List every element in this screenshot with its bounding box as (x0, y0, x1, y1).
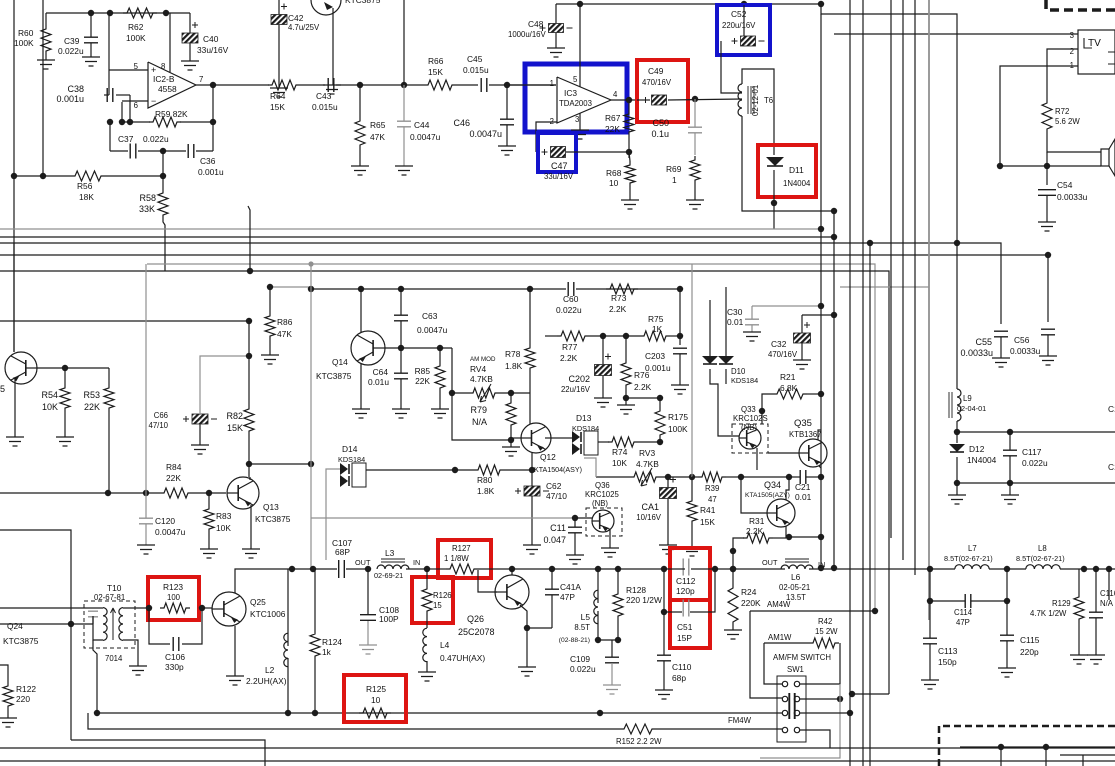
wire (116, 94, 130, 96)
red box R127 (438, 540, 491, 578)
resistor R128 (613, 590, 623, 620)
svg-text:R129: R129 (1052, 599, 1071, 608)
wire (145, 264, 147, 493)
svg-text:8: 8 (161, 62, 165, 71)
ground (37, 60, 55, 69)
svg-text:10K: 10K (216, 523, 231, 533)
resistor R84 (160, 488, 192, 498)
wire (336, 84, 424, 86)
resistor R56 (71, 171, 105, 181)
svg-text:L9: L9 (963, 394, 972, 403)
svg-text:02-69-21: 02-69-21 (374, 571, 403, 580)
svg-text:R79: R79 (470, 405, 487, 415)
svg-text:10: 10 (609, 178, 619, 188)
capacitor C43 (328, 78, 334, 92)
svg-text:7: 7 (199, 75, 203, 84)
wire (385, 347, 452, 349)
resistor R86 (265, 312, 275, 340)
svg-text:KDS184: KDS184 (731, 376, 758, 385)
red box R125 (344, 675, 406, 722)
svg-text:R80: R80 (477, 475, 493, 485)
red box R123 (148, 577, 199, 620)
wire (733, 538, 744, 569)
svg-text:−: − (151, 96, 156, 106)
svg-text:4.7u/25V: 4.7u/25V (288, 23, 320, 32)
ground (82, 57, 100, 66)
svg-text:0.0047u: 0.0047u (410, 132, 441, 142)
svg-text:100K: 100K (668, 424, 688, 434)
ground (502, 447, 520, 456)
wire (430, 568, 446, 570)
svg-text:C1: C1 (1108, 404, 1115, 414)
svg-text:R41: R41 (700, 505, 716, 515)
ground (617, 405, 635, 414)
svg-text:02-12-01: 02-12-01 (751, 85, 760, 116)
ground (547, 48, 565, 57)
ground (518, 667, 536, 676)
capacitor C107 (339, 560, 345, 578)
resistor R31 (743, 533, 773, 543)
svg-text:330p: 330p (165, 662, 184, 672)
svg-text:0.015u: 0.015u (463, 65, 489, 75)
ground (793, 360, 811, 369)
svg-text:0.0047u: 0.0047u (417, 325, 448, 335)
blue box C47 (538, 133, 576, 172)
resistor R60 (41, 25, 51, 55)
svg-text:+: + (151, 65, 156, 75)
svg-text:T6: T6 (764, 96, 773, 105)
svg-text:0.022u: 0.022u (1022, 458, 1048, 468)
ground (659, 545, 677, 554)
svg-text:0.001u: 0.001u (56, 94, 84, 104)
wire (360, 289, 362, 332)
wire (pin1) (507, 84, 556, 86)
diode D12 (949, 444, 965, 452)
resistor R68 (625, 161, 635, 187)
ground (1070, 655, 1088, 664)
resistor R62 (123, 8, 157, 18)
wire (249, 477, 251, 480)
capacitor C39 (84, 37, 98, 43)
capacitor C11 (568, 527, 582, 533)
wire (576, 288, 680, 290)
capacitor C120 (139, 518, 153, 524)
svg-text:C115: C115 (1020, 635, 1040, 645)
svg-text:R78: R78 (505, 349, 521, 359)
svg-text:2.2UH(AX): 2.2UH(AX) (246, 676, 287, 686)
ground (921, 680, 939, 689)
svg-text:6: 6 (134, 101, 138, 110)
ground (724, 630, 742, 639)
inductor L5 (594, 590, 598, 624)
wire (121, 102, 123, 122)
svg-text:0.01: 0.01 (795, 492, 812, 502)
svg-text:KRC102S: KRC102S (733, 414, 768, 423)
svg-text:C37: C37 (118, 134, 134, 144)
svg-text:47/10: 47/10 (546, 491, 567, 501)
svg-text:100K: 100K (14, 38, 34, 48)
wire (192, 492, 226, 494)
svg-text:Q26: Q26 (467, 614, 484, 624)
capacitor C114 (965, 594, 971, 608)
svg-text:KRC1025: KRC1025 (585, 490, 619, 499)
svg-text:5: 5 (573, 75, 578, 84)
svg-text:C36: C36 (200, 156, 216, 166)
junction (88, 10, 94, 16)
ground (6, 437, 24, 446)
svg-text:220u/16V: 220u/16V (722, 21, 756, 30)
svg-text:15K: 15K (428, 67, 443, 77)
capacitor C116 (1089, 612, 1103, 618)
svg-text:15: 15 (433, 601, 442, 610)
svg-text:0.022u: 0.022u (556, 305, 582, 315)
svg-text:R64: R64 (270, 91, 286, 101)
svg-text:L5: L5 (581, 612, 591, 622)
svg-text:22K: 22K (605, 124, 620, 134)
svg-text:4558: 4558 (158, 84, 177, 94)
wire (162, 151, 164, 189)
wire (691, 264, 693, 477)
svg-text:C43: C43 (316, 91, 332, 101)
svg-text:47: 47 (708, 495, 717, 504)
svg-text:10: 10 (371, 695, 381, 705)
svg-text:RV3: RV3 (639, 448, 655, 458)
speaker (1101, 149, 1109, 166)
svg-text:470/16V: 470/16V (642, 78, 672, 87)
svg-text:C202: C202 (568, 374, 590, 384)
svg-text:5.6 2W: 5.6 2W (1055, 117, 1080, 126)
wire (0, 623, 93, 625)
svg-text:SW1: SW1 (787, 665, 804, 674)
svg-text:47K: 47K (277, 329, 292, 339)
capacitor C117 (1003, 450, 1017, 456)
svg-text:1 1/8W: 1 1/8W (444, 554, 469, 563)
svg-text:C112: C112 (676, 576, 696, 586)
svg-text:IN: IN (818, 560, 825, 569)
svg-text:15K: 15K (270, 102, 285, 112)
ground (418, 672, 436, 681)
svg-text:KTA1505(AZY): KTA1505(AZY) (745, 492, 790, 499)
svg-text:R69: R69 (666, 164, 682, 174)
svg-text:C38: C38 (67, 84, 84, 94)
junction (210, 82, 216, 88)
resistor R78 (525, 344, 535, 372)
svg-text:22u/16V: 22u/16V (561, 385, 591, 394)
svg-text:D12: D12 (969, 444, 985, 454)
transistor Q12 (521, 423, 551, 453)
svg-text:FM4W: FM4W (728, 716, 752, 725)
resistor R175 (655, 407, 665, 439)
svg-text:C117: C117 (1022, 447, 1042, 457)
resistor R75 (640, 331, 670, 341)
resistor R152 (620, 724, 656, 734)
svg-text:R65: R65 (370, 120, 386, 130)
wire (300, 84, 325, 86)
svg-text:C41A: C41A (560, 582, 581, 592)
svg-text:1N4004: 1N4004 (967, 455, 997, 465)
svg-text:C32: C32 (771, 339, 787, 349)
svg-text:0.0047u: 0.0047u (155, 527, 186, 537)
capacitor C106 (149, 608, 170, 644)
transformer T6 (738, 84, 742, 116)
svg-text:C49: C49 (648, 66, 664, 76)
resistor R80 (474, 465, 504, 475)
wire (97, 712, 782, 714)
ground (261, 355, 279, 364)
svg-text:0.022u: 0.022u (570, 664, 596, 674)
wire (957, 482, 1010, 484)
ground (226, 676, 244, 685)
junction (119, 119, 125, 125)
svg-text:5: 5 (0, 384, 5, 394)
svg-text:R56: R56 (77, 181, 93, 191)
wire (248, 206, 250, 271)
svg-text:0.022u: 0.022u (143, 134, 169, 144)
diode D11 (766, 157, 784, 166)
svg-text:Q36: Q36 (595, 481, 610, 490)
svg-text:R42: R42 (818, 617, 832, 626)
svg-text:N/A: N/A (1100, 599, 1114, 608)
svg-text:R77: R77 (562, 342, 578, 352)
wire (664, 568, 685, 570)
svg-text:IC3: IC3 (564, 88, 577, 98)
wire (138, 150, 186, 152)
svg-text:D11: D11 (789, 165, 804, 175)
wire (957, 431, 1115, 433)
wire (741, 476, 789, 478)
svg-text:0.1u: 0.1u (651, 129, 669, 139)
wire (637, 99, 650, 101)
ground (1038, 222, 1056, 231)
svg-text:KTC3875: KTC3875 (316, 371, 352, 381)
wire (511, 437, 521, 439)
svg-text:C46: C46 (453, 118, 470, 128)
svg-text:C51: C51 (677, 622, 693, 632)
svg-text:TDA2003: TDA2003 (559, 99, 592, 108)
ground (359, 645, 377, 654)
wire (960, 746, 1115, 748)
wire bus (0, 228, 821, 230)
svg-text:0.015u: 0.015u (312, 102, 338, 112)
wire bus (862, 0, 864, 766)
svg-text:R62: R62 (128, 22, 144, 32)
wire (545, 335, 557, 337)
svg-text:470/16V: 470/16V (768, 350, 798, 359)
svg-text:1: 1 (550, 79, 554, 88)
svg-text:(02-88-21): (02-88-21) (559, 637, 590, 644)
resistor R54 (60, 384, 70, 412)
svg-text:KDS184: KDS184 (572, 424, 599, 433)
resistor R42 (809, 638, 839, 648)
wire (105, 175, 163, 177)
wire (1000, 165, 1101, 167)
svg-text:C48: C48 (528, 19, 544, 29)
wire (670, 335, 680, 337)
wire (552, 568, 664, 570)
svg-text:L2: L2 (265, 665, 275, 675)
wire (626, 397, 660, 399)
wire (310, 264, 312, 568)
svg-text:R73: R73 (611, 293, 627, 303)
wire (109, 122, 111, 151)
svg-text:R126: R126 (433, 591, 452, 600)
ground (498, 146, 516, 155)
ground (1001, 495, 1019, 504)
svg-text:R83: R83 (216, 511, 232, 521)
svg-text:0.001u: 0.001u (198, 167, 224, 177)
svg-text:100K: 100K (126, 33, 146, 43)
wire bus (928, 0, 930, 620)
svg-text:KTC3875: KTC3875 (345, 0, 381, 5)
wire (0, 530, 71, 740)
capacitor C55 (994, 331, 1008, 337)
wire bus (821, 4, 957, 324)
svg-text:D10: D10 (731, 367, 746, 376)
wire (180, 121, 213, 123)
wire bus (890, 0, 892, 538)
resistor R41 (687, 497, 697, 525)
svg-text:220: 220 (16, 694, 30, 704)
capacitor C66 (192, 414, 208, 424)
op-amp IC2-B (148, 62, 196, 108)
svg-text:220K: 220K (741, 598, 761, 608)
junction (246, 461, 252, 467)
svg-text:8.5T(02-67-21): 8.5T(02-67-21) (1016, 554, 1065, 563)
svg-text:C39: C39 (64, 36, 80, 46)
wire (13, 0, 15, 352)
blue box IC3 (525, 64, 627, 132)
wire (234, 626, 236, 676)
svg-text:CA1: CA1 (641, 502, 659, 512)
svg-text:R76: R76 (634, 370, 650, 380)
svg-text:R74: R74 (612, 447, 628, 457)
transistor Q13 (227, 477, 259, 509)
svg-text:C54: C54 (1057, 180, 1073, 190)
svg-text:R75: R75 (648, 314, 664, 324)
svg-text:6.8K: 6.8K (780, 383, 798, 393)
wire (bottom bus) (0, 747, 1115, 749)
svg-text:C64: C64 (373, 367, 389, 377)
transistor (top) (311, 0, 341, 15)
svg-text:C114: C114 (954, 608, 973, 617)
svg-text:15 2W: 15 2W (815, 627, 838, 636)
svg-text:Q25: Q25 (250, 597, 266, 607)
resistor R76 (621, 359, 631, 389)
svg-text:Q12: Q12 (540, 452, 556, 462)
svg-text:AM MOD: AM MOD (470, 356, 496, 363)
svg-text:1.8K: 1.8K (505, 361, 523, 371)
svg-text:R59 82K: R59 82K (155, 109, 188, 119)
svg-text:100: 100 (167, 593, 181, 602)
svg-text:Q35: Q35 (794, 418, 812, 429)
capacitor C37 (130, 144, 136, 159)
ground (0, 718, 17, 727)
svg-text:3: 3 (575, 115, 579, 124)
svg-text:47P: 47P (560, 592, 575, 602)
wire (956, 324, 958, 389)
svg-text:2.2K: 2.2K (609, 304, 627, 314)
wire bus (147, 264, 875, 610)
ground (671, 385, 689, 394)
capacitor C56 (1041, 329, 1055, 335)
svg-text:02-04-01: 02-04-01 (957, 404, 986, 413)
resistor R67 (624, 110, 634, 136)
svg-text:68p: 68p (672, 673, 686, 683)
wire (789, 476, 800, 478)
capacitor C60 (568, 282, 574, 296)
svg-text:R66: R66 (428, 56, 444, 66)
ground (137, 545, 155, 554)
capacitor C40 (182, 33, 198, 43)
transistor Q14 (351, 331, 385, 365)
svg-text:R39: R39 (705, 484, 719, 493)
TV jack (1078, 30, 1115, 74)
resistor R82 (244, 405, 254, 435)
capacitor C115 (1000, 635, 1014, 641)
wire bus (833, 211, 835, 568)
ground (566, 555, 584, 564)
wire bus (820, 14, 822, 568)
svg-text:C106: C106 (165, 652, 185, 662)
resistor R53 (104, 384, 114, 412)
svg-text:100P: 100P (379, 614, 399, 624)
wire bus (914, 0, 916, 575)
dashed border (top right) (1046, 0, 1115, 10)
svg-text:R53: R53 (83, 390, 100, 400)
capacitor C108 (360, 615, 376, 621)
svg-text:C21: C21 (795, 482, 811, 492)
resistor R79 (506, 399, 516, 429)
wire (489, 84, 556, 86)
svg-text:R175: R175 (668, 412, 688, 422)
svg-text:68P: 68P (335, 547, 350, 557)
ground (603, 685, 621, 694)
svg-text:C44: C44 (414, 120, 430, 130)
svg-text:C50: C50 (652, 118, 669, 128)
ground (743, 332, 761, 341)
svg-text:0.0047u: 0.0047u (469, 129, 502, 139)
junction (452, 467, 458, 473)
ground (352, 409, 370, 418)
capacitor C51 (683, 600, 689, 617)
capacitor C47 (551, 147, 566, 158)
wire (598, 639, 618, 641)
wire (37, 367, 109, 369)
capacitor C38 (107, 88, 113, 102)
capacitor C202 (595, 365, 612, 376)
svg-text:C11: C11 (550, 523, 566, 533)
wire (360, 364, 362, 409)
wire (656, 728, 782, 730)
resistor R129 (1074, 593, 1084, 623)
svg-text:7014: 7014 (105, 654, 123, 663)
svg-text:RV4: RV4 (470, 364, 486, 374)
resistor R74 (608, 437, 638, 447)
wire (545, 437, 560, 439)
resistor R124 (310, 630, 320, 660)
inductor L4 (423, 628, 427, 662)
capacitor C203 (673, 348, 687, 354)
resistor R65 (355, 117, 365, 149)
red box D11 (758, 145, 816, 197)
wire (733, 568, 785, 570)
svg-text:D14: D14 (342, 444, 358, 454)
svg-text:15K: 15K (227, 423, 243, 433)
wire bus (0, 236, 834, 238)
resistor R39 (698, 472, 726, 482)
svg-text:R54: R54 (41, 390, 58, 400)
svg-text:0.0033u: 0.0033u (960, 348, 993, 358)
